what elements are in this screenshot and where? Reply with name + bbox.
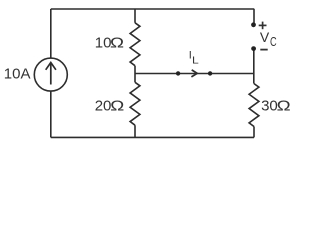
wire middle column lower stub <box>134 125 136 137</box>
label minus <box>260 49 267 51</box>
svg-text:C: C <box>270 36 277 50</box>
wire middle horizontal (inductor branch, shorted) <box>135 73 254 75</box>
wire middle column upper stub <box>134 9 136 23</box>
junction dot inductor terminal left <box>176 71 180 75</box>
resistor R 20ohm <box>130 82 140 125</box>
junction dot inductor terminal right <box>208 71 212 75</box>
label 20ohm <box>95 97 125 114</box>
wire left lower <box>50 91 52 137</box>
svg-text:L: L <box>192 55 199 66</box>
resistor R 30ohm <box>249 84 259 127</box>
wire right between cap terminal and node <box>253 49 255 84</box>
capacitor terminal + dot <box>251 22 256 27</box>
svg-text:10A: 10A <box>4 65 31 82</box>
current source I1 arrow <box>46 63 56 85</box>
wire right upper stub <box>253 9 255 25</box>
resistor R 10ohm <box>130 23 140 66</box>
svg-text:20: 20 <box>95 97 112 114</box>
wire middle column center <box>134 66 136 83</box>
svg-text:10: 10 <box>95 35 112 52</box>
capacitor terminal - dot <box>251 46 256 51</box>
svg-text:Ω: Ω <box>277 97 291 114</box>
current arrow IL chevron <box>191 70 197 77</box>
svg-text:30: 30 <box>261 97 278 114</box>
wire left upper <box>50 9 52 58</box>
wire right lower stub <box>253 127 255 138</box>
svg-text:Ω: Ω <box>110 34 124 51</box>
label 30ohm <box>261 97 291 114</box>
current source I1 circle <box>34 58 67 91</box>
wire top <box>51 8 254 10</box>
wire bottom <box>51 136 254 138</box>
svg-text:V: V <box>260 29 270 45</box>
label plus <box>259 22 267 30</box>
svg-text:Ω: Ω <box>110 97 124 114</box>
label 10ohm <box>95 34 124 51</box>
